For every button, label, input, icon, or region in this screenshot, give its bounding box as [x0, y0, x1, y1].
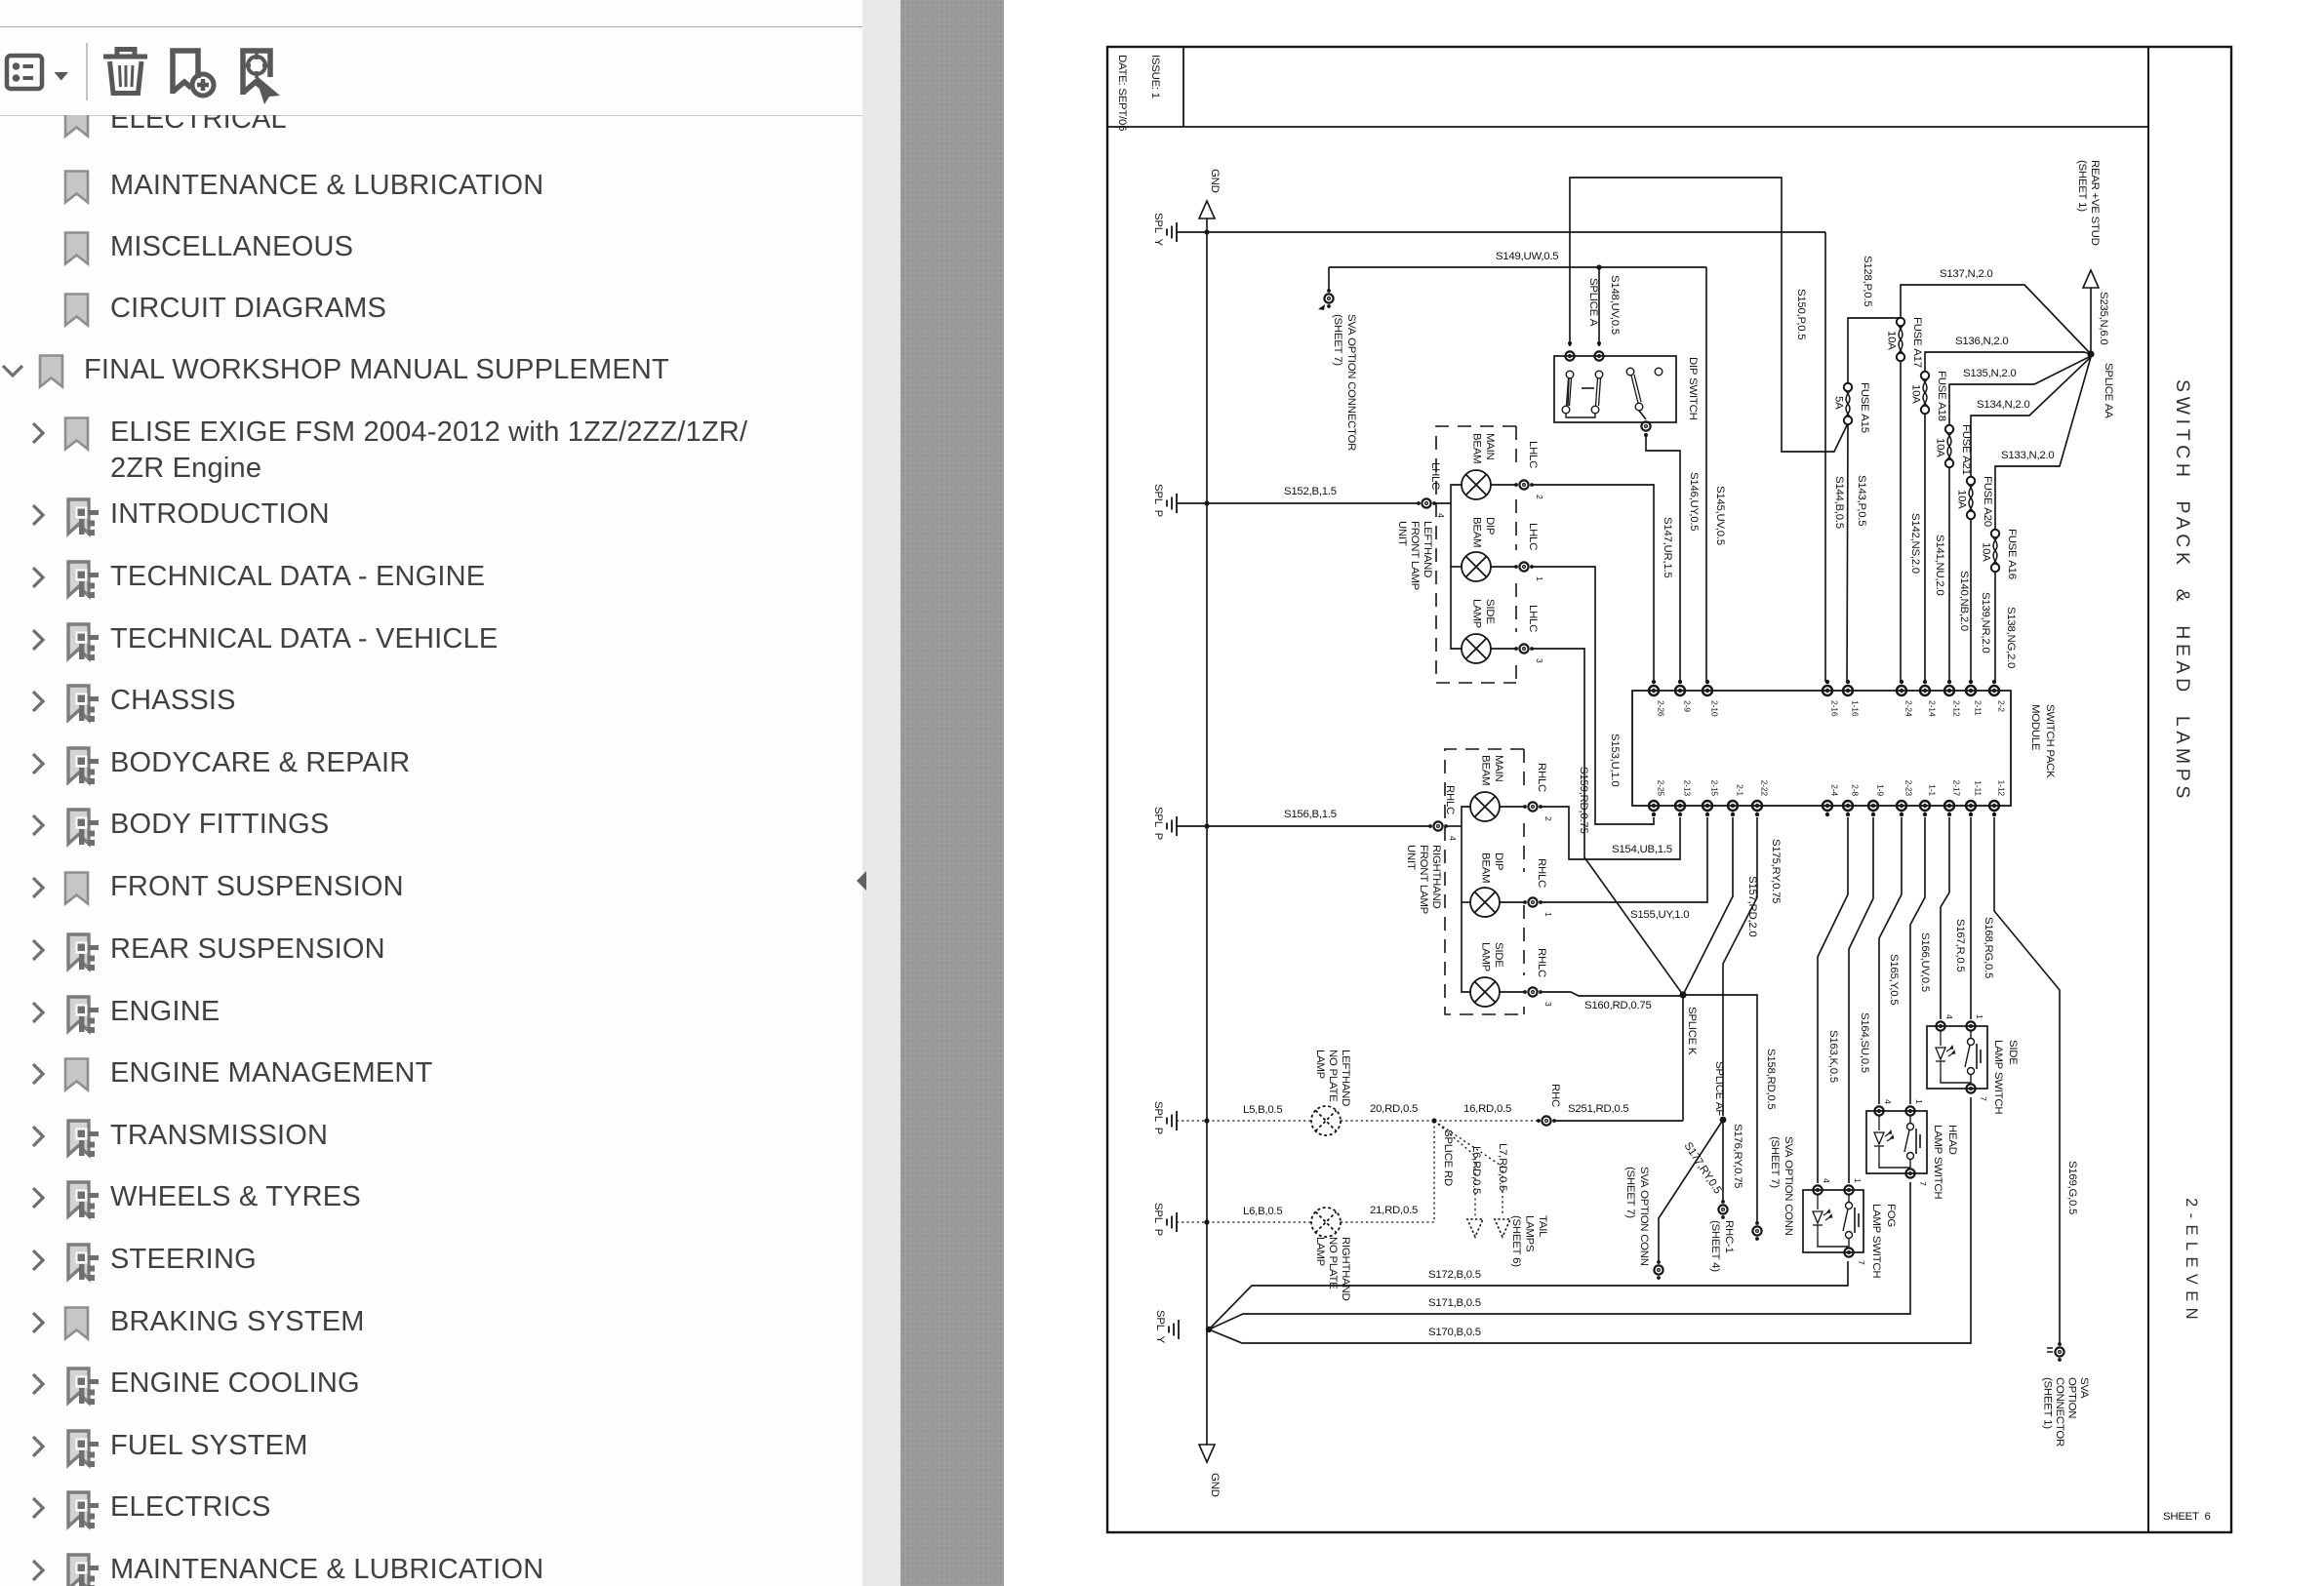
svg-text:S165,Y,0.5: S165,Y,0.5 — [1888, 954, 1900, 1005]
svg-text:S175,RY,0.75: S175,RY,0.75 — [1770, 839, 1782, 903]
wire S166,UV,0.5 — [1910, 817, 1925, 1104]
svg-text:LEFTHANDFRONT LAMPUNIT: LEFTHANDFRONT LAMPUNIT — [1396, 521, 1433, 590]
svg-text:S133,N,2.0: S133,N,2.0 — [2001, 450, 2055, 461]
wire RH dip beam out — [1500, 901, 1526, 903]
svg-text:SPLICE K: SPLICE K — [1686, 1007, 1698, 1055]
connector SVA option (sheet 7) top — [1324, 294, 1333, 302]
svg-text:1: 1 — [1543, 912, 1553, 917]
junction bus/GND — [1204, 229, 1209, 234]
wire splice K down to S251 — [1682, 995, 1684, 1121]
contact side switch — [1941, 1031, 1981, 1083]
switch SIDE LAMP SWITCH box — [1927, 1026, 1987, 1089]
svg-text:4: 4 — [1448, 836, 1458, 841]
svg-text:2-8: 2-8 — [1851, 784, 1861, 796]
ground SPL P (L6) — [1167, 1212, 1177, 1232]
svg-text:2-15: 2-15 — [1710, 780, 1720, 797]
wire S164,SU,0.5 — [1849, 817, 1873, 1183]
svg-text:4: 4 — [1883, 1099, 1893, 1104]
pin 2-14 (module top) — [1920, 686, 1930, 695]
connector fog switch pin 4 — [1813, 1185, 1822, 1194]
svg-text:S149,UW,0.5: S149,UW,0.5 — [1496, 251, 1558, 262]
svg-text:7: 7 — [1857, 1260, 1866, 1265]
svg-text:1-16: 1-16 — [1851, 700, 1861, 717]
svg-text:4: 4 — [1944, 1014, 1954, 1019]
svg-text:S155,UY,1.0: S155,UY,1.0 — [1630, 909, 1689, 921]
svg-text:2-22: 2-22 — [1760, 780, 1770, 797]
pin 2-1 (module bottom) — [1728, 801, 1738, 811]
svg-text:SPL P: SPL P — [1152, 1203, 1164, 1236]
svg-text:S148,UV,0.5: S148,UV,0.5 — [1609, 275, 1621, 335]
pin 2-17 (module bottom) — [1944, 801, 1954, 811]
pin 2-13 (module bottom) — [1675, 801, 1685, 811]
node SPLICE RD — [1431, 1118, 1436, 1123]
svg-text:S152,B,1.5: S152,B,1.5 — [1284, 486, 1337, 497]
wire LH lamp bus lower — [1451, 503, 1462, 649]
svg-text:3: 3 — [1535, 658, 1544, 663]
svg-text:DIPBEAM: DIPBEAM — [1480, 852, 1505, 883]
wire GND bottom stem — [1206, 1441, 1208, 1445]
svg-text:2-1: 2-1 — [1736, 784, 1745, 796]
svg-text:SPLICE RD: SPLICE RD — [1442, 1130, 1454, 1186]
connector head switch pin 4 — [1874, 1106, 1883, 1115]
svg-text:2-4: 2-4 — [1830, 784, 1840, 796]
dip switch lower link — [1566, 414, 1595, 417]
svg-text:FUSE A15: FUSE A15 — [1859, 382, 1870, 433]
svg-text:MAINBEAM: MAINBEAM — [1471, 433, 1497, 463]
svg-text:L6,B,0.5: L6,B,0.5 — [1243, 1206, 1282, 1217]
svg-text:4: 4 — [1822, 1178, 1831, 1183]
connector RHLC-2 — [1528, 802, 1537, 811]
svg-text:FOGLAMP SWITCH: FOGLAMP SWITCH — [1870, 1204, 1897, 1278]
svg-text:2-25: 2-25 — [1657, 780, 1666, 797]
svg-text:ISSUE: 1DATE: SEPT/06: ISSUE: 1DATE: SEPT/06 — [1116, 55, 1161, 131]
connector RHLC-1 — [1528, 897, 1537, 906]
connector RHC-1 (sheet 4) — [1718, 1205, 1727, 1213]
svg-text:2-16: 2-16 — [1830, 700, 1840, 717]
svg-text:SPLICE AA: SPLICE AA — [2103, 363, 2114, 418]
svg-text:S159,RD,0.75: S159,RD,0.75 — [1578, 767, 1589, 834]
svg-text:2-24: 2-24 — [1904, 700, 1914, 717]
svg-text:GND: GND — [1209, 169, 1221, 193]
svg-text:S167,R,0.5: S167,R,0.5 — [1954, 919, 1966, 972]
wire dip switch left feed loop — [1570, 178, 1847, 452]
svg-text:2-10: 2-10 — [1710, 700, 1720, 717]
svg-text:2-14: 2-14 — [1928, 700, 1938, 717]
fuse A21 — [1945, 425, 1953, 467]
fuse A20 — [1967, 477, 1975, 519]
svg-text:1: 1 — [1853, 1178, 1863, 1183]
svg-text:2: 2 — [1535, 495, 1544, 499]
wire S137,N,2.0 — [1901, 285, 2091, 354]
svg-text:RHLC: RHLC — [1536, 948, 1547, 977]
svg-text:S141,NU,2.0: S141,NU,2.0 — [1934, 535, 1945, 595]
wire S136,N,2.0 — [1925, 352, 2091, 372]
svg-text:FUSE A18: FUSE A18 — [1936, 371, 1947, 421]
wire SVA connector stem — [1328, 267, 1330, 292]
svg-text:L7,RD,0.5: L7,RD,0.5 — [1497, 1143, 1508, 1191]
svg-text:S137,N,2.0: S137,N,2.0 — [1940, 268, 1993, 280]
svg-text:2-12: 2-12 — [1952, 700, 1962, 717]
svg-text:SPL P: SPL P — [1152, 1101, 1164, 1134]
dip switch bar mark — [1582, 387, 1594, 389]
svg-text:SIDELAMP SWITCH: SIDELAMP SWITCH — [1992, 1040, 2019, 1114]
wire S134,N,2.0 — [1971, 357, 2091, 477]
wire 20,RD,0.5 — [1341, 1120, 1434, 1122]
pin 1-1 (module bottom) — [1920, 801, 1930, 811]
dip switch blades — [1567, 375, 1642, 406]
wire S165,Y,0.5 — [1879, 817, 1902, 1104]
svg-text:2-9: 2-9 — [1683, 700, 1693, 712]
pin 2-26 (module top) — [1649, 686, 1659, 695]
connector SVA option conn (sheet 7) S158 — [1752, 1226, 1761, 1235]
wire S141,NU,2.0 — [1924, 414, 1926, 682]
svg-text:SHEET 6: SHEET 6 — [2163, 1511, 2211, 1523]
connector dip pin A — [1565, 351, 1574, 360]
arrow to REAR +VE STUD — [2083, 270, 2099, 288]
wire S160,RD,0.75 — [1540, 992, 1683, 996]
module SWITCH PACK MODULE box — [1632, 691, 2011, 806]
svg-text:TAILLAMPS(SHEET 6): TAILLAMPS(SHEET 6) — [1510, 1215, 1548, 1267]
svg-text:1-12: 1-12 — [1997, 780, 2007, 797]
pin 2-23 (module bottom) — [1897, 801, 1906, 811]
wire S152,B,1.5 — [1177, 502, 1420, 504]
svg-text:SPL P: SPL P — [1152, 484, 1164, 517]
svg-text:S136,N,2.0: S136,N,2.0 — [1955, 336, 2009, 347]
wire RH main beam out — [1500, 806, 1526, 808]
switch FOG LAMP SWITCH box — [1803, 1190, 1863, 1252]
node SPLICE AA — [2087, 350, 2094, 357]
junction bus/S156 — [1204, 823, 1209, 828]
svg-text:10A: 10A — [1981, 542, 1992, 562]
svg-text:1-1: 1-1 — [1928, 784, 1938, 796]
connector side switch pin 4 — [1936, 1021, 1944, 1030]
lamp LH main beam — [1462, 470, 1491, 499]
svg-text:S134,N,2.0: S134,N,2.0 — [1977, 399, 2030, 411]
wire S177,RY,0.5 — [1659, 1120, 1723, 1262]
svg-text:RHLC: RHLC — [1536, 858, 1547, 888]
stub dot S148 — [1597, 341, 1601, 345]
connector fog switch pin 7 — [1844, 1248, 1853, 1256]
wire S157,RD,2.0 — [1683, 817, 1733, 995]
wire S235,N,6.0 — [2090, 288, 2092, 354]
wire L7,RD,0.5 branch — [1434, 1121, 1503, 1215]
svg-text:S142,NS,2.0: S142,NS,2.0 — [1909, 513, 1921, 574]
connector LHLC-3 — [1519, 644, 1528, 653]
svg-text:LHLC: LHLC — [1527, 441, 1539, 468]
svg-text:2-2: 2-2 — [1997, 700, 2007, 712]
wire 21,RD,0.5 — [1341, 1124, 1434, 1222]
wire S139,NR,2.0 — [1970, 519, 1972, 682]
wire S167,R,0.5 — [1941, 817, 1949, 1019]
LED indicator head switch — [1874, 1116, 1894, 1162]
wire S163,K,0.5 — [1818, 817, 1848, 1183]
svg-text:SPL Y: SPL Y — [1154, 1310, 1166, 1344]
svg-text:1: 1 — [1975, 1014, 1984, 1019]
svg-text:16,RD,0.5: 16,RD,0.5 — [1463, 1103, 1511, 1115]
switch DIP SWITCH box — [1554, 356, 1676, 422]
pin 2-12 (module top) — [1944, 686, 1954, 695]
wire main ground bus vertical — [1206, 232, 1208, 1441]
ground SPL P (L5) — [1167, 1111, 1177, 1130]
svg-text:5A: 5A — [1833, 396, 1845, 410]
LED indicator fog switch — [1813, 1195, 1832, 1241]
wire S169,G,0.5 — [1994, 817, 2060, 1344]
pin 2-22 (module bottom) — [1752, 801, 1762, 811]
wire S135,N,2.0 — [1949, 356, 2091, 425]
wire LH lamp bus — [1451, 485, 1462, 503]
svg-text:SPLICE AF: SPLICE AF — [1713, 1061, 1725, 1116]
wire S251,RD,0.5 — [1554, 1120, 1683, 1122]
fuse A17 — [1897, 318, 1904, 361]
svg-text:S168,RG,0.5: S168,RG,0.5 — [1983, 917, 1994, 978]
pin 2-2 (module top) — [1989, 686, 1999, 695]
svg-text:SVA OPTION CONN(SHEET 7): SVA OPTION CONN(SHEET 7) — [1624, 1167, 1650, 1266]
svg-text:LEFTHANDNO PLATELAMP: LEFTHANDNO PLATELAMP — [1314, 1050, 1351, 1106]
svg-text:1: 1 — [1914, 1099, 1924, 1104]
svg-text:S164,SU,0.5: S164,SU,0.5 — [1859, 1012, 1870, 1073]
wire RH side lamp out — [1500, 991, 1526, 993]
wire S142,NS,2.0 — [1900, 361, 1902, 682]
ground SPL P (LH unit) — [1167, 494, 1177, 513]
fuse A15 — [1844, 383, 1852, 424]
wire GND arrow stem — [1206, 218, 1208, 232]
svg-text:S170,B,0.5: S170,B,0.5 — [1428, 1327, 1481, 1338]
lamp lefthand no plate lamp — [1311, 1106, 1341, 1135]
connector dip pin B — [1594, 351, 1603, 360]
svg-text:S144,B,0.5: S144,B,0.5 — [1833, 476, 1845, 529]
svg-text:SIDELAMP: SIDELAMP — [1480, 942, 1505, 971]
pin 1-9 (module bottom) — [1868, 801, 1878, 811]
svg-text:S156,B,1.5: S156,B,1.5 — [1284, 809, 1337, 820]
svg-text:RHC: RHC — [1549, 1084, 1561, 1107]
wire S170,B,0.5 — [1209, 1097, 1971, 1343]
wire S138,NG,2.0 — [1994, 572, 1996, 682]
svg-text:S251,RD,0.5: S251,RD,0.5 — [1568, 1103, 1628, 1115]
svg-text:GND: GND — [1209, 1473, 1221, 1497]
svg-text:21,RD,0.5: 21,RD,0.5 — [1370, 1205, 1418, 1216]
svg-text:2-13: 2-13 — [1683, 780, 1693, 797]
svg-text:S169,G,0.5: S169,G,0.5 — [2066, 1161, 2078, 1214]
svg-text:SVAOPTIONCONNECTOR(SHEET 1): SVAOPTIONCONNECTOR(SHEET 1) — [2042, 1377, 2091, 1447]
connector LHLC-4 — [1422, 498, 1430, 507]
svg-text:2-26: 2-26 — [1657, 700, 1666, 717]
svg-text:LHLC: LHLC — [1429, 462, 1441, 490]
lamp RH dip beam — [1470, 888, 1500, 917]
svg-text:L5,B,0.5: L5,B,0.5 — [1243, 1104, 1282, 1116]
svg-text:S147,UR,1.5: S147,UR,1.5 — [1662, 517, 1673, 577]
svg-text:2-ELEVEN: 2-ELEVEN — [2183, 1198, 2200, 1326]
connector head switch pin 7 — [1905, 1169, 1914, 1177]
connector SVA option conn (sheet 7) S177 — [1654, 1265, 1663, 1274]
connector RHLC-3 — [1528, 987, 1537, 996]
wire RH lamp bus — [1462, 807, 1470, 826]
wire L6,B,0.5 — [1177, 1221, 1311, 1223]
svg-text:10A: 10A — [1935, 438, 1946, 457]
wire S148,UV,0.5 — [1598, 267, 1600, 346]
wire splice K to S158 — [1683, 995, 1757, 1224]
connector RHLC-4 — [1433, 821, 1442, 830]
junction bus/L6 — [1204, 1219, 1209, 1224]
lamp RH main beam — [1470, 792, 1500, 821]
wire S168,RG,0.5 — [1970, 817, 1972, 1019]
svg-text:S140,NB,2.0: S140,NB,2.0 — [1958, 571, 1970, 631]
wire S159,RD,0.75 — [1531, 649, 1683, 995]
svg-text:S235,N,6.0: S235,N,6.0 — [2098, 292, 2109, 345]
wire LH side lamp out — [1491, 648, 1517, 650]
wire RHLC-4 to lamp bus — [1446, 825, 1462, 827]
dip switch contacts — [1562, 368, 1663, 414]
wire S149,UW,0.5 — [1329, 266, 1706, 268]
svg-text:FUSE A17: FUSE A17 — [1911, 317, 1923, 368]
svg-text:SPL P: SPL P — [1152, 807, 1164, 840]
svg-text:RIGHTHANDNO PLATELAMP: RIGHTHANDNO PLATELAMP — [1314, 1237, 1351, 1300]
svg-text:7: 7 — [1918, 1181, 1928, 1186]
svg-text:1-9: 1-9 — [1876, 784, 1886, 796]
svg-text:SVA OPTION CONNECTOR(SHEET 7): SVA OPTION CONNECTOR(SHEET 7) — [1332, 314, 1357, 451]
wire S156,B,1.5 — [1177, 825, 1431, 827]
svg-text:S166,UV,0.5: S166,UV,0.5 — [1919, 932, 1931, 992]
arrow tail lamps 1 — [1467, 1219, 1483, 1237]
pin 2-15 (module bottom) — [1703, 801, 1712, 811]
wire S145,UV,0.5 — [1705, 267, 1707, 682]
stub dot dip output — [1644, 433, 1648, 437]
arrow tail lamps 2 — [1495, 1219, 1510, 1237]
pin 1-11 (module bottom) — [1966, 801, 1976, 811]
svg-text:RHC-1(SHEET 4): RHC-1(SHEET 4) — [1709, 1220, 1735, 1272]
wire dip output internal — [1639, 411, 1646, 419]
svg-text:RHLC: RHLC — [1536, 763, 1547, 792]
svg-text:1-11: 1-11 — [1974, 780, 1983, 796]
svg-text:4: 4 — [1436, 513, 1446, 518]
LED indicator side switch — [1936, 1031, 1955, 1077]
svg-text:SPLICE A: SPLICE A — [1587, 278, 1599, 327]
svg-text:SIDELAMP: SIDELAMP — [1471, 599, 1497, 628]
fuse A16 — [1991, 530, 1999, 572]
lamp-unit LEFTHAND FRONT LAMP UNIT dashed box — [1436, 426, 1516, 683]
svg-text:LHLC: LHLC — [1527, 605, 1539, 632]
pin 2-11 (module top) — [1966, 686, 1976, 695]
lamp righthand no plate lamp — [1311, 1208, 1341, 1237]
wire S150,P,0.5 / S144,B,0.5 — [1824, 232, 1826, 682]
pin 2-4 (module bottom) — [1823, 801, 1832, 811]
svg-text:2: 2 — [1543, 816, 1553, 821]
svg-text:S171,B,0.5: S171,B,0.5 — [1428, 1297, 1481, 1309]
svg-text:S163,K,0.5: S163,K,0.5 — [1827, 1030, 1839, 1083]
pin 1-12 (module bottom) — [1989, 801, 1999, 811]
border frame — [1107, 47, 2231, 1532]
wire S175,RY,0.75 — [1723, 817, 1757, 1116]
junction SPL Y splice — [1206, 1327, 1212, 1332]
connector dip pin C bottom — [1641, 421, 1650, 430]
svg-text:20,RD,0.5: 20,RD,0.5 — [1370, 1103, 1418, 1115]
svg-text:SWITCH PACK & HEAD LAMPS: SWITCH PACK & HEAD LAMPS — [2172, 379, 2193, 803]
svg-text:FUSE A16: FUSE A16 — [2006, 529, 2018, 579]
svg-text:S139,NR,2.0: S139,NR,2.0 — [1980, 592, 1991, 653]
svg-text:SVA OPTION CONN(SHEET 7): SVA OPTION CONN(SHEET 7) — [1769, 1136, 1794, 1236]
svg-text:S128,P,0.5: S128,P,0.5 — [1862, 256, 1873, 306]
issue box divider — [1182, 47, 1184, 127]
pin 2-9 (module top) — [1675, 686, 1685, 695]
wire LH dip beam out — [1491, 566, 1517, 568]
svg-text:SPL Y: SPL Y — [1152, 213, 1164, 247]
junction bus/L5 — [1204, 1118, 1209, 1123]
pin 2-25 (module bottom) — [1649, 801, 1659, 811]
svg-text:S143,P,0.5: S143,P,0.5 — [1856, 475, 1867, 526]
svg-text:L6,RD,0.5: L6,RD,0.5 — [1470, 1146, 1482, 1194]
svg-text:REAR +VE STUD(SHEET 1): REAR +VE STUD(SHEET 1) — [2076, 160, 2101, 246]
connector LHLC-1 — [1519, 562, 1528, 571]
ground SPL Y bottom — [1169, 1320, 1179, 1339]
wire LH main beam out — [1491, 484, 1517, 486]
svg-text:DIPBEAM: DIPBEAM — [1471, 517, 1497, 547]
wire L5,B,0.5 — [1177, 1120, 1311, 1122]
switch HEAD LAMP SWITCH box — [1866, 1111, 1927, 1173]
header band line — [1107, 126, 2148, 128]
junction S149/S148 — [1596, 264, 1601, 269]
wire S143,P,0.5 — [1847, 424, 1848, 682]
fuse A18 — [1921, 372, 1929, 414]
wire S176,RY,0.75 — [1722, 1120, 1724, 1203]
connector RHC — [1542, 1116, 1550, 1125]
contact fog switch — [1818, 1195, 1859, 1247]
svg-text:2-17: 2-17 — [1952, 780, 1962, 797]
wire SPL Y bus horizontal — [1177, 231, 1825, 233]
svg-text:S176,RY,0.75: S176,RY,0.75 — [1732, 1124, 1743, 1188]
ground SPL P (RH unit) — [1167, 816, 1177, 836]
wire S128,P,0.5 — [1848, 318, 1901, 383]
svg-text:S138,NG,2.0: S138,NG,2.0 — [2005, 607, 2017, 668]
pin 2-10 (module top) — [1703, 686, 1712, 695]
lamp LH side lamp — [1462, 634, 1491, 663]
ground SPL Y top — [1167, 222, 1177, 242]
wire RH bus to dip — [1462, 901, 1470, 903]
svg-text:DIP SWITCH: DIP SWITCH — [1687, 357, 1699, 420]
svg-text:3: 3 — [1543, 1002, 1553, 1007]
svg-text:10A: 10A — [1910, 384, 1922, 404]
lamp RH side lamp — [1470, 977, 1500, 1007]
contact head switch — [1879, 1116, 1920, 1168]
svg-text:10A: 10A — [1956, 490, 1968, 509]
node SPLICE AF — [1720, 1117, 1727, 1124]
wire S155,UY,1.0 — [1540, 817, 1707, 902]
svg-text:S158,RD,0.5: S158,RD,0.5 — [1765, 1049, 1777, 1109]
wire S171,B,0.5 — [1209, 1182, 1910, 1329]
wire S140,NB,2.0 — [1948, 467, 1950, 682]
junction bus/S152 — [1204, 500, 1209, 505]
svg-text:FUSE A20: FUSE A20 — [1982, 476, 1993, 527]
lamp-unit RIGHTHAND FRONT LAMP UNIT dashed box — [1445, 749, 1524, 1014]
svg-text:2-11: 2-11 — [1974, 700, 1983, 716]
wire LHLC-4 to lamp bus — [1434, 502, 1451, 504]
svg-text:S135,N,2.0: S135,N,2.0 — [1963, 368, 2017, 379]
svg-text:S177,RY,0.5: S177,RY,0.5 — [1681, 1140, 1723, 1196]
svg-text:S172,B,0.5: S172,B,0.5 — [1428, 1269, 1481, 1281]
stub dot dip left feed — [1568, 341, 1572, 345]
svg-text:S153,U,1.0: S153,U,1.0 — [1609, 734, 1621, 787]
wire S147,UR,1.5 — [1531, 485, 1654, 682]
ground-symbol GND bottom arrow — [1199, 1445, 1215, 1462]
svg-text:S150,P,0.5: S150,P,0.5 — [1795, 289, 1807, 339]
svg-text:MAINBEAM: MAINBEAM — [1480, 755, 1505, 785]
svg-text:RIGHTHANDFRONT LAMPUNIT: RIGHTHANDFRONT LAMPUNIT — [1405, 845, 1442, 914]
lamp LH dip beam — [1462, 552, 1491, 581]
svg-text:10A: 10A — [1886, 331, 1898, 350]
node SPLICE K — [1679, 991, 1686, 998]
wire L6,RD,0.5 branch — [1434, 1121, 1475, 1215]
wire S154,UB,1.5 — [1540, 807, 1680, 859]
wire S133,N,2.0 — [1995, 357, 2091, 530]
wire S172,B,0.5 — [1209, 1261, 1848, 1329]
